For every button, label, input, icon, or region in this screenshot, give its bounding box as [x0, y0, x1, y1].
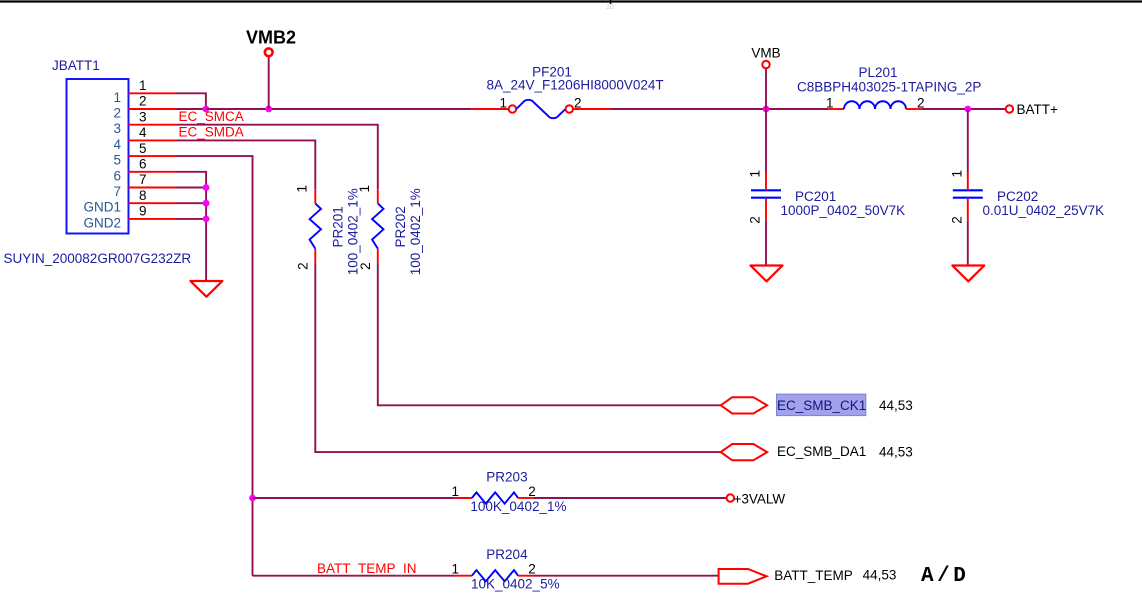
junction pin7 [203, 184, 210, 191]
wire rail corner to PR204 [253, 575, 455, 577]
resistor PR204 [451, 547, 559, 592]
wire pin7 to rail [177, 187, 207, 189]
svg-text:2: 2 [949, 216, 964, 224]
resistor PR203 [451, 469, 566, 514]
off-page connector BATT_TEMP [719, 568, 897, 584]
capacitor PC201 [748, 109, 906, 265]
svg-text:7: 7 [139, 172, 147, 187]
wire bus fuse to inductor [610, 108, 828, 110]
svg-text:5: 5 [139, 141, 147, 156]
junction PR203 rail [249, 495, 256, 502]
svg-text:PC201: PC201 [795, 189, 836, 204]
svg-text:8A_24V_F1206HI8000V024T: 8A_24V_F1206HI8000V024T [487, 78, 664, 93]
svg-text:1: 1 [294, 185, 309, 193]
wire pin9 to rail [177, 218, 207, 220]
wire PR201 to EC_SMB_DA1 [315, 264, 720, 453]
svg-text:BATT_TEMP: BATT_TEMP [774, 568, 853, 583]
wire PR203 to +3VALW [534, 497, 726, 499]
svg-text:0.01U_0402_25V7K: 0.01U_0402_25V7K [983, 203, 1105, 218]
svg-text:9: 9 [139, 204, 147, 219]
svg-text:4: 4 [139, 125, 147, 140]
svg-text:1000P_0402_50V7K: 1000P_0402_50V7K [781, 203, 906, 218]
wire pin2 to bus [177, 108, 206, 110]
svg-text:10K_0402_5%: 10K_0402_5% [471, 577, 560, 592]
svg-text:VMB: VMB [751, 46, 780, 61]
svg-text:PL201: PL201 [858, 65, 897, 80]
svg-text:44,53: 44,53 [863, 568, 897, 583]
pin stub 8 [129, 202, 177, 204]
svg-text:EC_SMB_CK1: EC_SMB_CK1 [777, 398, 866, 413]
svg-text:8: 8 [139, 188, 147, 203]
svg-text:VMB2: VMB2 [246, 28, 296, 48]
wire pin3 EC_SMCA to PR202 [177, 125, 378, 190]
svg-text:1: 1 [499, 95, 507, 110]
svg-text:2: 2 [748, 216, 763, 224]
svg-text:2: 2 [528, 562, 536, 577]
wire rail to PR203 [253, 497, 455, 499]
off-page connector EC_SMB_DA1 [721, 444, 913, 460]
pin stub 6 [129, 171, 177, 173]
svg-text:PR203: PR203 [486, 469, 527, 484]
svg-text:+3VALW: +3VALW [734, 492, 786, 507]
svg-text:1: 1 [748, 170, 763, 178]
svg-text:100_0402_1%: 100_0402_1% [345, 188, 360, 275]
junction VMB2 [265, 106, 272, 113]
svg-text:6: 6 [113, 168, 121, 183]
svg-text:GND2: GND2 [83, 215, 121, 230]
resistor PR201 [294, 185, 360, 275]
power symbol +3VALW [727, 492, 786, 507]
svg-text:5: 5 [113, 153, 121, 168]
wire pin8 to rail [177, 202, 207, 204]
inductor PL201 [797, 65, 981, 110]
wire pin5 down left rail [177, 156, 253, 576]
svg-text:6: 6 [139, 157, 147, 172]
pin stub 3 [129, 124, 177, 126]
svg-text:100_0402_1%: 100_0402_1% [408, 188, 423, 275]
junction pin9 [203, 216, 210, 223]
svg-text:1: 1 [451, 484, 459, 499]
svg-text:4: 4 [113, 137, 121, 152]
off-page connector EC_SMB_CK1 [721, 394, 913, 416]
svg-text:1: 1 [451, 562, 459, 577]
svg-text:1: 1 [949, 170, 964, 178]
svg-text:2: 2 [528, 484, 536, 499]
svg-text:PR201: PR201 [330, 206, 345, 247]
svg-text:A/D: A/D [921, 565, 969, 588]
svg-text:EC_SMDA: EC_SMDA [179, 125, 244, 140]
capacitor PC202 [949, 109, 1104, 265]
power symbol BATT+ [1006, 102, 1058, 117]
fuse PF201 [472, 65, 664, 119]
pin stub 9 [129, 218, 177, 220]
svg-text:44,53: 44,53 [879, 398, 913, 413]
wire PR202 to EC_SMB_CK1 [378, 264, 721, 406]
svg-text:BATT+: BATT+ [1017, 102, 1058, 117]
power symbol VMB2 [246, 28, 296, 110]
svg-text:BATT_TEMP_IN: BATT_TEMP_IN [317, 561, 417, 576]
svg-text:7: 7 [113, 184, 121, 199]
svg-text:100K_0402_1%: 100K_0402_1% [470, 499, 566, 514]
svg-text:PR204: PR204 [486, 547, 528, 562]
svg-text:EC_SMB_DA1: EC_SMB_DA1 [777, 444, 866, 459]
ground symbol connector [190, 281, 222, 297]
svg-text:2: 2 [113, 106, 121, 121]
svg-text:1: 1 [139, 78, 147, 93]
svg-text:PR202: PR202 [393, 206, 408, 247]
pin stub 1 [129, 92, 177, 94]
svg-text:EC_SMCA: EC_SMCA [179, 109, 244, 124]
svg-text:3: 3 [139, 109, 147, 124]
wire pin4 EC_SMDA to PR201 [177, 140, 316, 189]
svg-text:10: 10 [606, 4, 614, 11]
svg-text:2: 2 [139, 94, 147, 109]
pin stub 2 [129, 108, 177, 110]
svg-text:1: 1 [113, 90, 121, 105]
wire inductor to BATT+ [922, 108, 1005, 110]
ground symbol PC201 [751, 266, 783, 282]
power symbol VMB [751, 46, 780, 110]
svg-text:2: 2 [358, 262, 373, 270]
svg-text:2: 2 [295, 262, 310, 270]
wire pin1 to pin2 junction [177, 93, 206, 109]
svg-text:GND1: GND1 [83, 200, 121, 215]
svg-text:PC202: PC202 [997, 189, 1038, 204]
svg-text:1: 1 [357, 185, 372, 193]
wire pin6 to ground rail [177, 172, 207, 280]
wire main bus VMB2 segment [206, 108, 472, 110]
connector JBATT1 body [52, 58, 129, 234]
svg-text:JBATT1: JBATT1 [52, 58, 100, 73]
junction pin8 [203, 200, 210, 207]
svg-text:44,53: 44,53 [879, 444, 913, 459]
svg-text:3: 3 [113, 121, 121, 136]
ground symbol PC202 [952, 266, 984, 282]
wire PR204 to BATT_TEMP [534, 575, 719, 577]
svg-text:C8BBPH403025-1TAPING_2P: C8BBPH403025-1TAPING_2P [797, 80, 981, 95]
pin stub 4 [129, 139, 177, 141]
svg-text:1: 1 [826, 95, 834, 110]
junction VMB / PC201 [763, 106, 770, 113]
junction PC202 [964, 106, 971, 113]
svg-text:2: 2 [574, 95, 582, 110]
svg-text:SUYIN_200082GR007G232ZR: SUYIN_200082GR007G232ZR [4, 251, 192, 266]
pin stub 7 [129, 187, 177, 189]
pin stub 5 [129, 155, 177, 157]
resistor PR202 [357, 185, 423, 275]
junction pins 1-2 [203, 106, 210, 113]
